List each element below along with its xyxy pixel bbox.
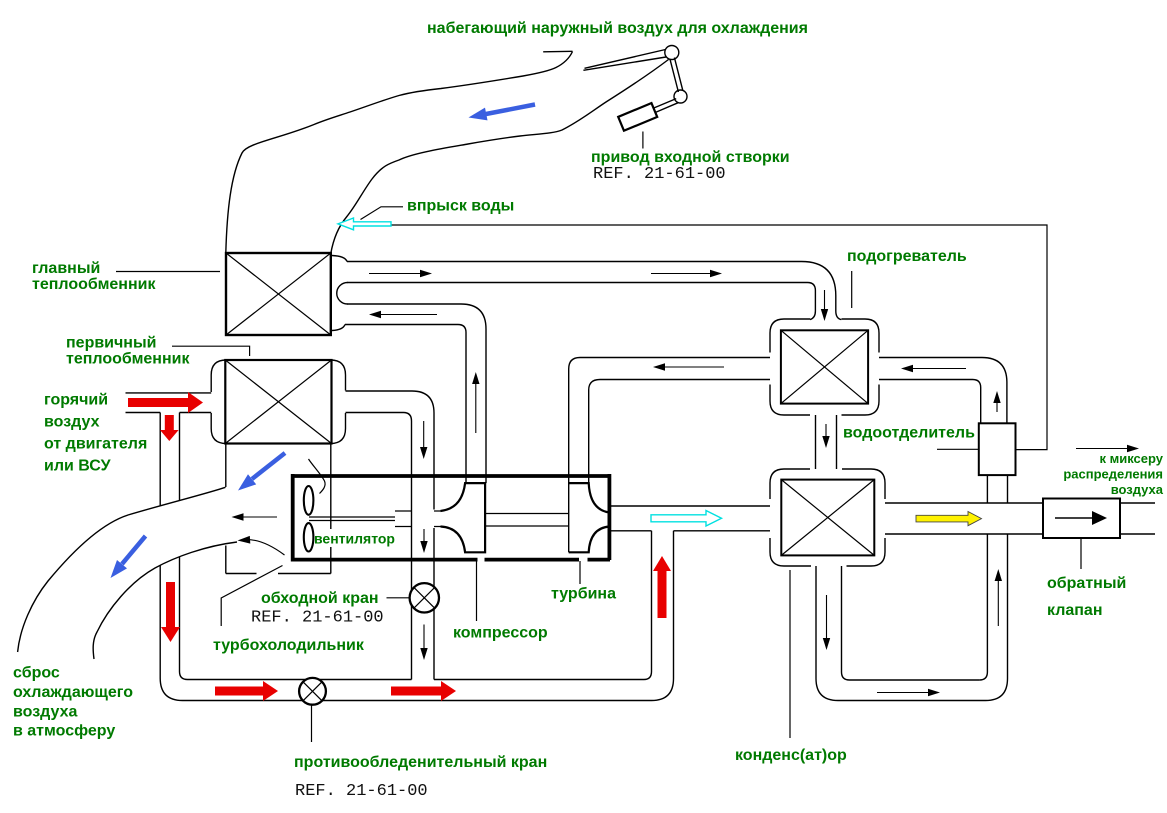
flap hinge circle xyxy=(665,46,679,60)
cyan arrow: water injection xyxy=(338,218,391,230)
svg-text:REF. 21-61-00: REF. 21-61-00 xyxy=(593,165,726,184)
svg-text:воздуха: воздуха xyxy=(13,703,77,720)
arrow up in loop right leg xyxy=(995,569,1002,626)
blue arrow: into exhaust duct xyxy=(238,453,285,491)
check valve arrow xyxy=(1055,517,1092,519)
compressor-turbine shaft xyxy=(485,514,569,527)
red arrow: bottom pipe left xyxy=(215,681,278,701)
pipe C: compressor riser to main HX xyxy=(345,304,486,483)
red arrow: up hot riser xyxy=(653,556,671,618)
leader: обратный клапан xyxy=(1080,539,1082,569)
main HX port flares xyxy=(332,256,347,331)
left vertical pipe to discharge xyxy=(160,413,187,701)
fan exhaust arrow curved xyxy=(238,536,285,555)
water separator box xyxy=(979,423,1016,475)
arrow down below bypass valve xyxy=(420,625,427,661)
leader: компрессор xyxy=(476,561,478,621)
svg-text:в атмосферу: в атмосферу xyxy=(13,723,115,740)
leader: конденс(ат)ор xyxy=(789,570,791,738)
water separator bottom pipe xyxy=(979,475,1007,700)
anti-ice valve (противообледенительный кран) xyxy=(299,678,326,705)
svg-text:турбина: турбина xyxy=(551,586,616,603)
leader dash: обходной кран xyxy=(387,597,410,599)
reheater casing xyxy=(770,319,879,415)
pipe A: main HX to reheater top xyxy=(347,262,841,320)
svg-text:обходной кран: обходной кран xyxy=(261,590,379,607)
fan shaft xyxy=(309,517,395,521)
arrow down reheater to condenser xyxy=(822,424,829,448)
arrow in pipe A near HX xyxy=(369,270,432,277)
arrow up in compressor riser xyxy=(472,372,479,433)
svg-text:компрессор: компрессор xyxy=(453,625,548,642)
leader: первичный теплообменник xyxy=(172,346,250,356)
compressor xyxy=(441,483,486,552)
arrow right in condenser loop xyxy=(877,689,940,696)
svg-text:турбохолодильник: турбохолодильник xyxy=(213,637,365,654)
svg-text:противообледенительный кран: противообледенительный кран xyxy=(294,754,547,771)
svg-text:от двигателя: от двигателя xyxy=(44,436,147,453)
condenser bottom loop xyxy=(816,566,986,701)
leader: турбина xyxy=(579,561,581,584)
actuator cylinder xyxy=(618,103,657,131)
arrow up into reheater right pipe xyxy=(993,391,1000,412)
red arrow: down long in left pipe xyxy=(161,582,180,642)
water injection line from separator xyxy=(391,225,1047,450)
arrow down in bypass riser above box xyxy=(420,421,427,459)
leader: впрыск воды xyxy=(361,207,404,220)
primary heat exchanger square xyxy=(225,360,331,444)
arrow to mixer xyxy=(1076,445,1139,452)
leader: главный теплообменник xyxy=(116,271,220,273)
red arrow: down short at inlet tee xyxy=(160,415,179,441)
svg-text:конденс(ат)ор: конденс(ат)ор xyxy=(735,747,847,764)
svg-text:распределения: распределения xyxy=(1063,467,1163,482)
svg-text:первичный: первичный xyxy=(66,335,156,352)
pipe D: primary HX to bypass riser xyxy=(346,391,435,680)
check valve box xyxy=(1043,499,1120,539)
svg-text:набегающий наружный воздух для: набегающий наружный воздух для охлаждени… xyxy=(427,20,808,37)
arrow down in bypass riser inside box xyxy=(420,529,427,553)
svg-text:привод входной створки: привод входной створки xyxy=(591,149,790,166)
leader: водоотделитель xyxy=(937,448,978,450)
red arrow: hot air inlet xyxy=(128,392,203,413)
blue arrow: ram air top xyxy=(469,105,536,121)
svg-text:клапан: клапан xyxy=(1047,602,1103,619)
svg-text:REF. 21-61-00: REF. 21-61-00 xyxy=(295,782,428,801)
fan leader squiggle xyxy=(309,459,326,494)
arrow in reheater-turbine pipe xyxy=(653,363,724,370)
fan exhaust arrow straight xyxy=(232,513,278,520)
svg-text:REF. 21-61-00: REF. 21-61-00 xyxy=(251,609,384,628)
actuator joint circle xyxy=(674,90,687,103)
reheater right pipe to water separator xyxy=(879,358,1007,423)
duct: ram air inlet upper wall xyxy=(226,52,573,254)
hot air inlet pipe walls xyxy=(126,393,212,413)
leader: привод входной створки xyxy=(642,132,644,149)
primary heat exchanger casing xyxy=(211,360,345,444)
arrow toward reheater right port xyxy=(901,365,966,372)
turbine outlet pipe to condenser xyxy=(611,506,770,531)
duct: ram air inlet lower wall xyxy=(331,60,669,254)
arrow down from condenser bottom xyxy=(823,595,830,650)
condenser outlet wide pipe xyxy=(885,503,1155,534)
compressor inlet lines xyxy=(395,511,441,527)
plenum walls under heat exchangers xyxy=(226,444,331,574)
main HX middle port bump xyxy=(337,283,348,305)
svg-text:горячий: горячий xyxy=(44,392,108,409)
svg-text:водоотделитель: водоотделитель xyxy=(843,425,975,442)
svg-text:главный: главный xyxy=(32,260,100,277)
svg-text:подогреватель: подогреватель xyxy=(847,248,967,265)
leader: подогреватель xyxy=(851,271,853,308)
leader: турбохолодильник xyxy=(221,566,282,627)
inlet flap (створка) xyxy=(583,50,666,71)
exhaust duct lower wall xyxy=(93,542,237,659)
flow arrows (black) xyxy=(232,270,1140,696)
svg-text:теплообменник: теплообменник xyxy=(32,276,156,293)
actuator piston rod xyxy=(654,99,679,113)
turbine xyxy=(569,483,610,552)
svg-text:к миксеру: к миксеру xyxy=(1099,451,1163,466)
actuator link rod xyxy=(670,58,683,92)
svg-text:впрыск воды: впрыск воды xyxy=(407,198,514,215)
exhaust duct upper wall xyxy=(18,487,226,652)
svg-text:или ВСУ: или ВСУ xyxy=(44,458,112,475)
svg-text:воздух: воздух xyxy=(44,414,100,431)
fan blades xyxy=(304,486,314,552)
svg-text:воздуха: воздуха xyxy=(1111,482,1164,497)
blue arrow: exhaust duct lower xyxy=(111,536,146,578)
arrow in pipe C toward HX xyxy=(369,311,437,318)
turbine feed pipe from reheater xyxy=(569,358,770,553)
exhaust duct interior mask xyxy=(18,487,237,659)
condenser casing xyxy=(770,469,885,566)
condenser square xyxy=(781,480,874,556)
yellow arrow: conditioned air out xyxy=(916,512,982,526)
arrow down into reheater top xyxy=(821,290,828,321)
arrow in pipe A near reheater xyxy=(651,270,722,277)
main heat exchanger square xyxy=(226,253,331,335)
svg-text:теплообменник: теплообменник xyxy=(66,351,190,368)
turbo cooler thick box xyxy=(291,474,611,560)
leader: противообледенительный кран xyxy=(311,706,313,743)
svg-text:вентилятор: вентилятор xyxy=(314,531,395,547)
svg-text:охлаждающего: охлаждающего xyxy=(13,684,133,701)
duct: inlet lip cap xyxy=(543,50,572,53)
reheater to condenser pipe xyxy=(816,415,837,469)
red arrow: bottom pipe right xyxy=(391,681,456,701)
cyan arrow: turbine outlet xyxy=(651,511,722,527)
svg-text:сброс: сброс xyxy=(13,665,60,682)
bypass valve (обходной кран) xyxy=(410,583,439,612)
svg-text:обратный: обратный xyxy=(1047,575,1126,592)
reheater square xyxy=(781,330,868,403)
bottom hot-air pipe walls xyxy=(183,531,674,701)
